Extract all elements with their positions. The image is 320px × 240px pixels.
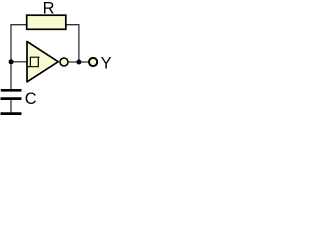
svg-text:C: C: [25, 90, 37, 108]
svg-text:Y: Y: [101, 54, 112, 72]
svg-text:R: R: [43, 0, 55, 17]
